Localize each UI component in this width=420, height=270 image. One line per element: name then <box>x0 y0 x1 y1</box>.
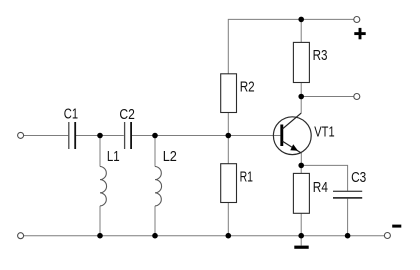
svg-text:L2: L2 <box>163 149 177 165</box>
minus terminal <box>384 233 390 239</box>
top rail junction <box>298 17 304 23</box>
collector node junction <box>298 94 304 100</box>
emitter node junction <box>298 163 304 169</box>
capacitor C3 <box>333 170 366 198</box>
bottom rail junction R4 <box>298 233 304 239</box>
wire L2 bottom lead <box>154 206 156 236</box>
node B junction <box>152 133 158 139</box>
wire L1 bottom lead <box>99 206 101 236</box>
wire collector <box>300 97 302 114</box>
wire bottom rail <box>24 235 385 237</box>
svg-text:C2: C2 <box>119 107 134 123</box>
resistor R2 <box>221 74 255 113</box>
capacitor C1 <box>64 107 78 149</box>
wire emitter <box>300 153 302 165</box>
svg-text:C3: C3 <box>351 170 366 186</box>
wire R1 bottom <box>227 203 229 236</box>
transistor VT1 <box>273 113 334 154</box>
plus sign <box>354 28 365 39</box>
bottom left terminal <box>18 233 24 239</box>
inductor L2 <box>155 149 177 206</box>
wire L1 top lead <box>99 136 101 167</box>
wire node A to C2 <box>100 135 124 137</box>
base node junction <box>226 133 232 139</box>
resistor R3 <box>293 42 327 82</box>
wire emitter node to C3 <box>301 165 347 191</box>
bottom rail junction L1 <box>97 233 103 239</box>
svg-text:R1: R1 <box>240 169 253 185</box>
wire ground stub <box>300 236 302 246</box>
wire C2 to node B <box>132 135 155 137</box>
capacitor C2 <box>119 107 134 149</box>
wire node B to base <box>155 135 280 137</box>
bottom rail junction C3 <box>345 233 351 239</box>
svg-text:R2: R2 <box>240 79 255 95</box>
resistor R4 <box>293 173 328 213</box>
wire input to C1 <box>24 135 69 137</box>
inductor L1 <box>100 149 120 206</box>
ground <box>294 246 308 249</box>
input terminal <box>18 132 24 138</box>
wire R4 bottom <box>300 213 302 235</box>
wire mid output <box>301 96 354 98</box>
mid output terminal <box>354 94 360 100</box>
wire R3 bottom <box>300 83 302 97</box>
plus terminal <box>354 17 360 23</box>
wire C1 to node A <box>76 135 100 137</box>
wire R3 top <box>300 19 302 42</box>
resistor R1 <box>221 164 253 203</box>
wire R2 bottom <box>227 113 229 136</box>
wire L2 top lead <box>154 136 156 167</box>
svg-text:VT1: VT1 <box>314 124 334 140</box>
svg-text:L1: L1 <box>107 149 120 165</box>
wire top rail with R2 drop <box>228 19 354 73</box>
svg-text:C1: C1 <box>64 107 78 123</box>
bottom rail junction R1 <box>226 233 232 239</box>
wire emitter node to R4 <box>300 165 302 173</box>
svg-text:R4: R4 <box>313 180 328 196</box>
wire R1 top <box>227 136 229 164</box>
bottom rail junction L2 <box>152 233 158 239</box>
svg-text:R3: R3 <box>313 48 328 64</box>
node A junction <box>97 133 103 139</box>
wire C3 bottom <box>347 199 349 236</box>
minus sign <box>392 225 401 228</box>
